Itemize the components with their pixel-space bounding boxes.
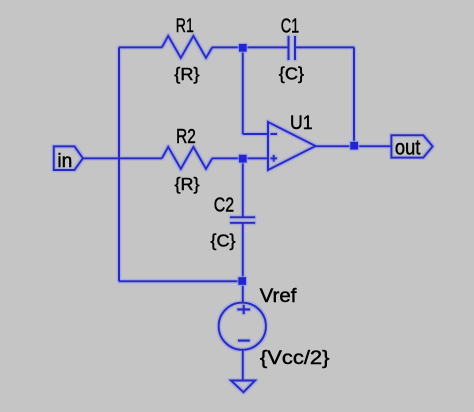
ground [231, 381, 255, 393]
Vref minus symbol [238, 340, 250, 342]
svg-text:out: out [395, 137, 421, 160]
capacitor C1 [289, 36, 296, 60]
junction node B (output/feedback) [350, 142, 358, 150]
op-amp plus symbol [271, 155, 278, 162]
svg-text:C2: C2 [214, 195, 234, 217]
voltage source Vref [219, 303, 266, 350]
Vref plus symbol [237, 305, 250, 314]
wire inverting branch vertical [242, 47, 244, 134]
svg-text:{Vcc/2}: {Vcc/2} [260, 347, 330, 369]
svg-text:Vref: Vref [260, 286, 297, 307]
svg-text:{C}: {C} [279, 63, 304, 83]
svg-text:C1: C1 [281, 15, 300, 37]
wire output [316, 145, 392, 147]
capacitor C2 [230, 217, 255, 223]
svg-text:{R}: {R} [175, 174, 200, 194]
junction node D (C2/Vref/bottom rail) [238, 277, 246, 285]
wire R1 to C1 [212, 46, 289, 48]
wire right vertical feedback [353, 47, 355, 146]
wire C2 branch lower [242, 223, 244, 281]
wire to Vref [242, 281, 244, 302]
svg-text:in: in [57, 150, 72, 172]
wire Vref to ground [242, 350, 244, 381]
wire inverting branch horizontal [243, 133, 268, 135]
wire bottom rail [119, 280, 243, 282]
svg-text:U1: U1 [290, 113, 313, 134]
wire top rail left of R1 [119, 46, 162, 48]
wire C1 to right rail [295, 46, 354, 48]
wire C2 branch upper [242, 158, 244, 217]
svg-text:R1: R1 [176, 15, 194, 37]
svg-text:R2: R2 [176, 126, 196, 148]
op-amp U1 [268, 122, 316, 170]
svg-text:{R}: {R} [174, 64, 199, 84]
wire left vertical bus [118, 47, 120, 281]
port out [391, 135, 432, 157]
op-amp minus symbol [271, 133, 278, 135]
resistor R1 [162, 36, 212, 58]
port in [54, 146, 83, 170]
wire in rail [83, 157, 162, 159]
wire R2 to noninverting node [212, 157, 268, 159]
junction node A (R1/C1/inverting) [239, 44, 247, 52]
junction node C (noninverting) [239, 155, 247, 163]
svg-text:{C}: {C} [210, 230, 235, 250]
resistor R2 [162, 147, 212, 169]
